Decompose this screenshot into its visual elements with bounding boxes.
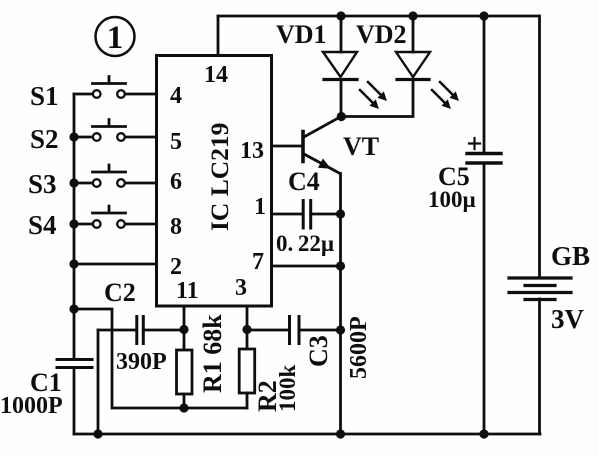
wire pin 7 row [272,265,341,268]
wire R1 bottom lead [183,394,186,408]
svg-text:1: 1 [107,20,124,56]
wire C5 bottom lead [483,163,486,434]
LED VD2 [342,52,430,117]
circled figure number 1 [96,17,135,56]
svg-text:R1 68k: R1 68k [198,314,227,393]
svg-text:VD1: VD1 [276,20,327,49]
svg-text:11: 11 [176,278,199,304]
LED VD1 anode lead [340,16,343,52]
svg-text:C4: C4 [288,167,320,196]
wire C5 top lead [483,16,486,153]
node C3 / emitter line [336,325,345,334]
node bottom rail / C5 [479,429,488,438]
node top rail / VD1 [336,11,345,20]
svg-text:3: 3 [235,275,247,301]
wire top rail [218,15,539,18]
wire S4 row [74,223,157,226]
svg-text:13: 13 [240,138,264,164]
node bus / S2 [69,132,78,141]
node bus / pin2 [69,259,78,268]
node bus / S3 [69,178,78,187]
svg-text:390P: 390P [116,349,167,375]
capacitor C3 [290,317,300,344]
wire R2 bottom lead [246,393,249,408]
svg-text:C3: C3 [304,335,333,367]
svg-text:100k: 100k [275,365,300,413]
svg-text:S1: S1 [30,81,59,111]
capacitor C2 [137,317,144,344]
battery GB [509,278,571,300]
wire bottom rail [74,433,540,436]
LED VD2 anode lead [412,16,415,52]
resistor R2 [239,349,255,393]
svg-text:7: 7 [252,249,264,275]
node C4 / emitter line [336,209,345,218]
wire C2 left lead [98,329,136,332]
LED VD2 emission arrows [432,82,453,103]
svg-text:5: 5 [170,129,182,155]
wire left switch bus upper [73,94,76,359]
wire pin 13 to base [272,145,302,148]
wire pin 3 drop [246,306,249,349]
wire battery positive riser [538,16,541,278]
node collector / LEDs [337,112,346,121]
wire pin 14 to top rail [217,16,220,56]
C5 polarity plus [469,138,480,149]
svg-text:S3: S3 [28,169,57,199]
svg-text:0. 22µ: 0. 22µ [276,231,334,256]
capacitor C5 (electrolytic) [467,154,501,164]
node bottom rail / emitter line [336,429,345,438]
wire C4 right lead [311,213,341,216]
svg-text:C2: C2 [104,278,136,307]
wire S1 row [74,93,157,96]
node top rail / VD2 [408,11,417,20]
svg-text:VT: VT [343,132,379,161]
node top rail / C5 [479,11,488,20]
resistor R1 [177,350,193,394]
svg-text:VD2: VD2 [356,20,407,49]
node bus / S4 [69,219,78,228]
node bottom rail / C2 drop [93,429,102,438]
switch S1 [93,77,126,98]
svg-text:GB: GB [551,241,590,271]
node pin3 / C3 [242,325,251,334]
svg-text:1000P: 1000P [0,393,63,419]
svg-text:6: 6 [170,169,182,195]
transistor VT [303,117,341,435]
wire S3 row [74,182,157,185]
svg-text:4: 4 [170,83,182,109]
wire pin 11 drop [183,306,186,350]
capacitor C4 [303,201,311,229]
svg-text:IC LC219: IC LC219 [205,123,234,231]
wire C2 right lead [143,329,184,332]
node pin7 / emitter line [336,261,345,270]
switch S2 [93,120,126,141]
svg-text:1: 1 [254,194,266,220]
wire C2 ground drop [97,330,100,434]
wire C3 left lead [247,329,289,332]
wire battery negative drop [538,299,541,434]
wire C3 right lead [299,329,341,332]
svg-text:100µ: 100µ [428,187,476,212]
svg-text:2: 2 [170,254,182,280]
svg-text:5600P: 5600P [346,316,372,379]
transistor VT emitter arrowhead [318,159,331,169]
op IC U1 body [157,56,272,307]
svg-text:S2: S2 [30,124,59,154]
svg-text:3V: 3V [551,304,585,334]
switch S4 [93,206,126,228]
svg-text:8: 8 [170,214,182,240]
wire C4 left lead (pin 1) [272,213,304,216]
node pin11 / C2 [179,325,188,334]
wire pin 2 row [74,263,157,266]
LED VD1 [323,52,357,117]
LED VD1 emission arrows [360,82,381,103]
wire left switch bus lower below C1 [73,368,76,434]
node bus / y309 branch [69,304,78,313]
switch S3 [93,165,126,187]
capacitor C1 (in left bus) [57,360,92,368]
wire S2 row [74,136,157,139]
svg-text:14: 14 [204,62,228,88]
wire node at y309 to resistor-loop bottom [74,309,247,408]
svg-text:S4: S4 [28,210,57,240]
node R1 bottom [179,403,188,412]
